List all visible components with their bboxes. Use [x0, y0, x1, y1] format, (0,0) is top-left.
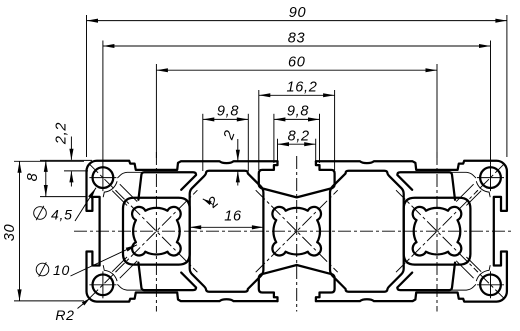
svg-text:2,2: 2,2	[54, 122, 70, 145]
svg-text:9,8: 9,8	[287, 104, 309, 120]
svg-text:30: 30	[2, 224, 18, 242]
svg-text:4,5: 4,5	[51, 206, 73, 222]
svg-text:8,2: 8,2	[288, 129, 310, 145]
svg-text:R2: R2	[55, 307, 74, 323]
svg-text:8: 8	[25, 173, 41, 182]
svg-text:60: 60	[288, 54, 306, 70]
svg-text:90: 90	[289, 5, 307, 21]
svg-text:83: 83	[288, 30, 306, 46]
svg-text:9,8: 9,8	[217, 104, 239, 120]
svg-text:16: 16	[224, 209, 242, 225]
svg-text:16,2: 16,2	[286, 80, 317, 96]
svg-text:10: 10	[53, 262, 70, 278]
